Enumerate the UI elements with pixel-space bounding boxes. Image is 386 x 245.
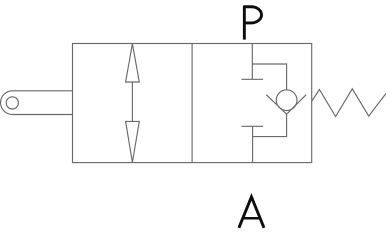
roller circle xyxy=(6,97,18,109)
wire: branch from P line to check valve xyxy=(252,64,286,90)
position divider line xyxy=(191,44,193,163)
valve body (2-position envelope) xyxy=(73,44,312,163)
check valve seat xyxy=(266,95,306,115)
port label A xyxy=(239,197,264,228)
port label P xyxy=(244,6,262,40)
check valve ball xyxy=(276,90,297,111)
wire: from check valve down and left xyxy=(253,114,287,136)
blocked port bar (top) xyxy=(241,78,263,80)
arrow shaft (left position flow path) xyxy=(131,82,133,121)
return spring xyxy=(312,89,386,117)
blocked port bar (bottom) xyxy=(241,125,263,127)
wire: P port line down into valve xyxy=(251,44,253,80)
roller plunger actuator xyxy=(1,91,73,115)
arrowhead up xyxy=(126,44,140,82)
wire: A port line up into valve xyxy=(252,126,254,162)
arrowhead down xyxy=(126,121,140,162)
